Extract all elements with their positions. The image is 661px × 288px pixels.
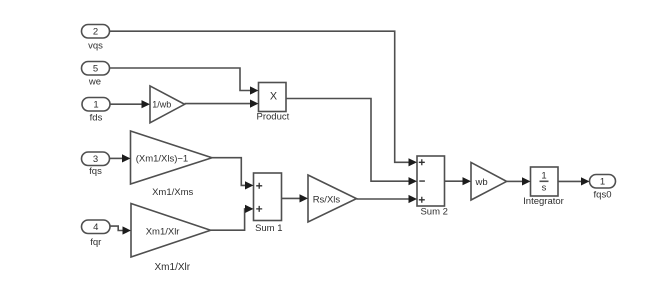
wire gain wb to integrator xyxy=(507,177,531,185)
svg-text:(Xm1/Xls)−1: (Xm1/Xls)−1 xyxy=(136,154,189,165)
gain 1/wb xyxy=(150,86,185,123)
svg-text:3: 3 xyxy=(93,154,98,165)
wire gain Xm1/Xlr to sum1 input2 xyxy=(211,205,254,230)
svg-text:1/wb: 1/wb xyxy=(152,99,171,109)
svg-text:Sum 1: Sum 1 xyxy=(255,223,282,234)
wire product to sum2 input2 xyxy=(286,99,417,186)
wire gain Rs/Xls to sum2 input3 xyxy=(357,195,418,203)
wire vqs to sum2 input1 xyxy=(110,31,418,166)
svg-text:wb: wb xyxy=(475,177,488,188)
inport 4 xyxy=(82,220,111,234)
outport 1 xyxy=(590,175,616,189)
wire fqs to gain (Xm1/Xls)-1 xyxy=(110,154,131,162)
svg-text:fqr: fqr xyxy=(90,237,101,248)
gain Xm1/Xlr xyxy=(131,204,211,258)
inport 2 xyxy=(82,25,110,39)
gain Rs/Xls xyxy=(308,175,357,222)
svg-text:2: 2 xyxy=(93,27,98,38)
svg-text:4: 4 xyxy=(93,222,98,233)
gain wb xyxy=(471,162,507,200)
svg-text:vqs: vqs xyxy=(88,40,103,51)
wire we to product input1 xyxy=(110,68,259,95)
svg-text:Integrator: Integrator xyxy=(523,196,564,207)
wire integrator to outport fqs0 xyxy=(558,177,590,185)
inport 1 xyxy=(82,98,110,112)
sum 2 block xyxy=(417,156,445,206)
wire gain 1/wb to product input2 xyxy=(185,100,259,108)
inport 5 xyxy=(82,62,110,76)
svg-text:Sum 2: Sum 2 xyxy=(420,207,447,218)
svg-text:Product: Product xyxy=(257,112,290,123)
svg-text:s: s xyxy=(542,182,547,193)
wire sum1 to gain Rs/Xls xyxy=(282,194,309,202)
product block xyxy=(259,83,287,112)
svg-text:fqs0: fqs0 xyxy=(594,189,612,200)
svg-text:Xm1/Xlr: Xm1/Xlr xyxy=(155,262,191,273)
svg-text:1: 1 xyxy=(541,170,546,181)
gain (Xm1/Xls)-1 xyxy=(131,131,213,184)
sum 1 block xyxy=(254,173,282,221)
wire fqr to gain Xm1/Xlr xyxy=(110,226,131,235)
svg-text:1: 1 xyxy=(600,177,605,188)
svg-text:Rs/Xls: Rs/Xls xyxy=(313,195,341,206)
svg-text:we: we xyxy=(88,76,101,87)
svg-text:X: X xyxy=(270,90,277,102)
inport 3 xyxy=(82,152,110,166)
svg-text:fds: fds xyxy=(90,113,103,124)
svg-text:1: 1 xyxy=(93,100,98,111)
svg-text:Xm1/Xms: Xm1/Xms xyxy=(152,187,193,198)
wire fds to gain 1/wb xyxy=(110,100,150,108)
wire gain (Xm1/Xls)-1 to sum1 input1 xyxy=(212,158,254,190)
wire sum2 to gain wb xyxy=(445,177,472,185)
svg-text:fqs: fqs xyxy=(89,166,102,177)
svg-text:5: 5 xyxy=(93,64,98,75)
integrator block xyxy=(531,167,559,196)
svg-text:Xm1/Xlr: Xm1/Xlr xyxy=(146,226,180,237)
